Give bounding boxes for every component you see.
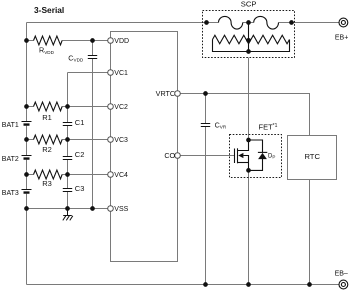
- svg-text:RVDD: RVDD: [39, 46, 55, 55]
- svg-text:VC4: VC4: [114, 172, 128, 179]
- svg-text:R1: R1: [42, 113, 52, 122]
- svg-text:EB+: EB+: [335, 35, 348, 42]
- svg-text:RTC: RTC: [304, 152, 320, 161]
- svg-text:VRTC: VRTC: [156, 89, 175, 98]
- svg-text:VDD: VDD: [114, 38, 129, 45]
- svg-text:DP: DP: [268, 154, 275, 160]
- svg-text:3-Serial: 3-Serial: [34, 5, 64, 15]
- svg-text:R2: R2: [42, 145, 52, 154]
- svg-text:BAT2: BAT2: [2, 156, 19, 163]
- svg-text:VC3: VC3: [114, 137, 128, 144]
- svg-text:VSS: VSS: [114, 206, 128, 213]
- svg-text:EB–: EB–: [335, 271, 348, 278]
- svg-text:CVDD: CVDD: [68, 53, 84, 62]
- svg-text:VC1: VC1: [114, 70, 128, 77]
- svg-text:R3: R3: [42, 179, 52, 188]
- svg-text:C3: C3: [75, 184, 85, 193]
- svg-text:VC2: VC2: [114, 104, 128, 111]
- svg-text:FET*1: FET*1: [259, 122, 278, 131]
- svg-text:C1: C1: [75, 118, 85, 127]
- svg-text:SCP: SCP: [241, 0, 257, 9]
- svg-text:BAT1: BAT1: [2, 122, 19, 129]
- svg-text:BAT3: BAT3: [2, 190, 19, 197]
- svg-text:CO: CO: [164, 151, 175, 160]
- svg-text:C2: C2: [75, 150, 85, 159]
- svg-text:CVR: CVR: [215, 120, 227, 129]
